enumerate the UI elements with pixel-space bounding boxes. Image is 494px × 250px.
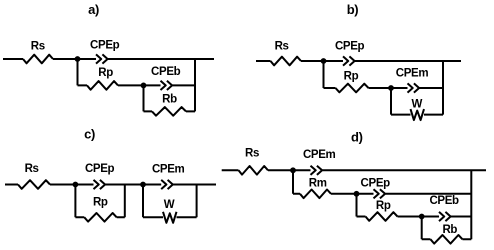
svg-text:CPEp: CPEp xyxy=(85,163,115,175)
svg-text:W: W xyxy=(412,99,423,111)
svg-text:Rs: Rs xyxy=(275,41,289,53)
svg-text:a): a) xyxy=(88,2,99,17)
svg-text:Rb: Rb xyxy=(442,224,457,236)
svg-text:CPEm: CPEm xyxy=(152,164,185,176)
svg-text:CPEp: CPEp xyxy=(335,41,365,53)
svg-text:Rp: Rp xyxy=(93,196,108,208)
svg-text:CPEm: CPEm xyxy=(396,67,429,79)
svg-text:Rs: Rs xyxy=(25,163,39,175)
svg-text:c): c) xyxy=(84,127,95,142)
svg-text:Rp: Rp xyxy=(344,71,359,83)
svg-text:W: W xyxy=(164,199,175,211)
svg-text:Rp: Rp xyxy=(376,200,391,212)
svg-text:Rs: Rs xyxy=(245,148,259,160)
svg-text:CPEb: CPEb xyxy=(151,66,181,78)
svg-text:CPEm: CPEm xyxy=(303,149,336,161)
svg-text:CPEb: CPEb xyxy=(429,195,459,207)
svg-text:Rp: Rp xyxy=(98,67,113,79)
svg-text:Rs: Rs xyxy=(31,41,45,53)
svg-text:b): b) xyxy=(347,2,359,17)
svg-text:CPEp: CPEp xyxy=(361,177,391,189)
svg-text:d): d) xyxy=(351,130,363,145)
svg-text:CPEp: CPEp xyxy=(90,39,120,51)
svg-text:Rm: Rm xyxy=(309,177,327,189)
svg-text:Rb: Rb xyxy=(162,94,177,106)
